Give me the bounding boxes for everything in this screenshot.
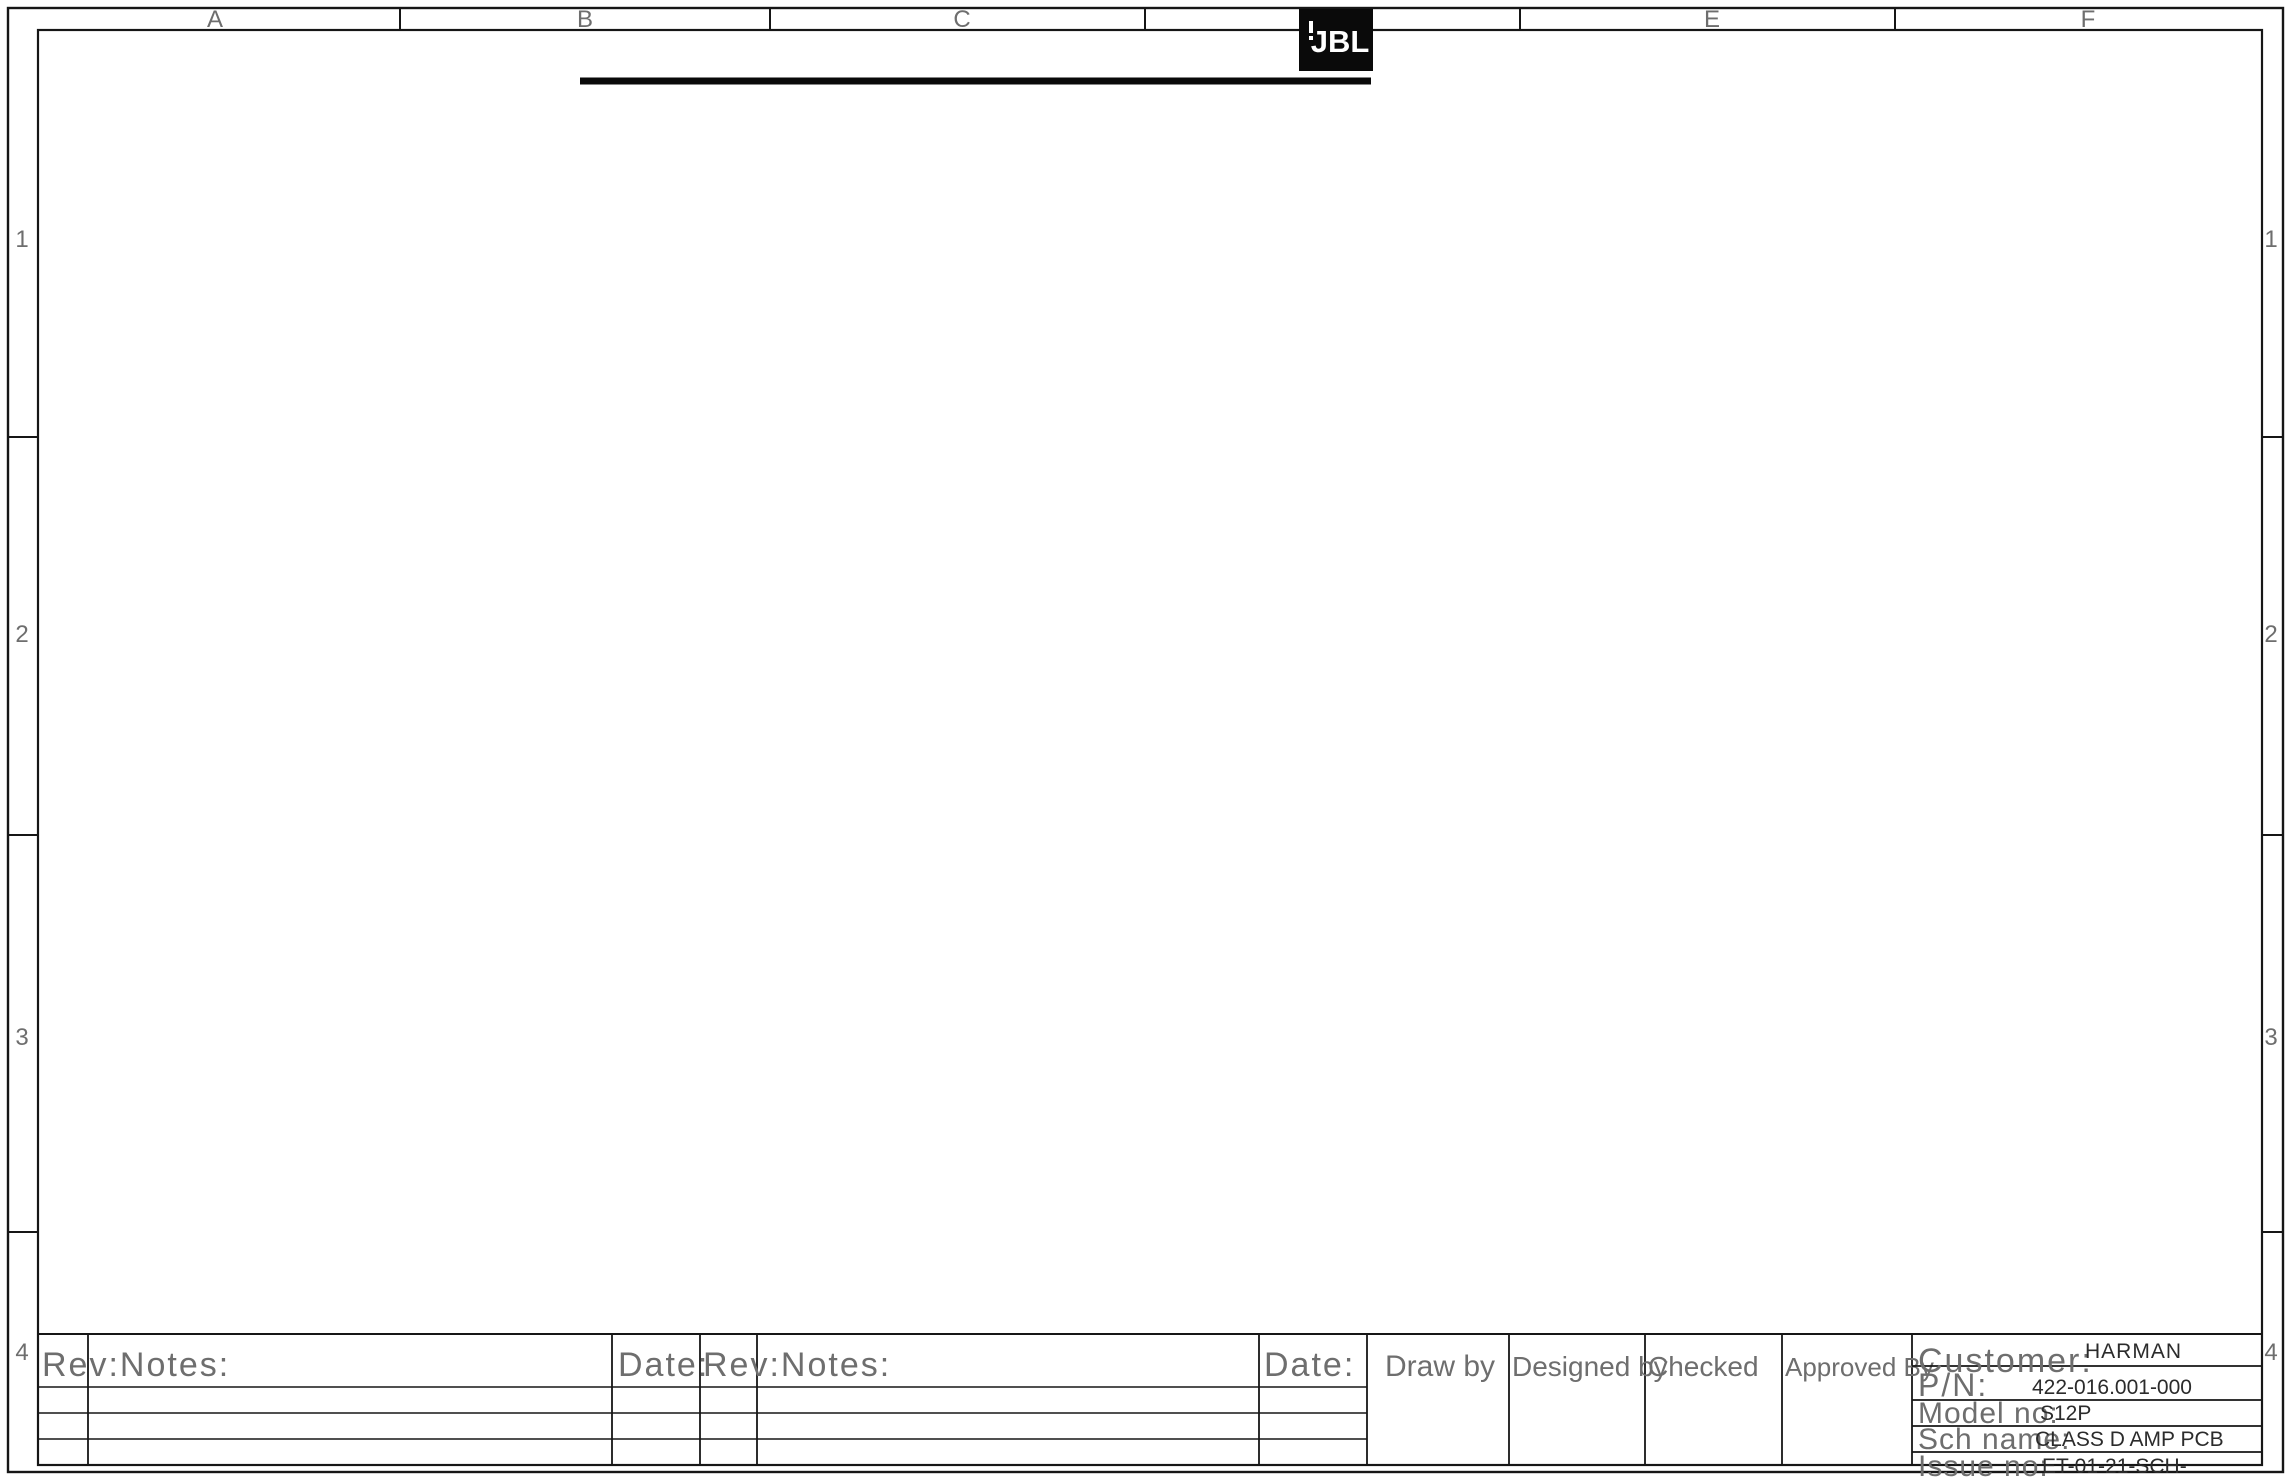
svg-text:Rev:Notes:: Rev:Notes: bbox=[703, 1346, 891, 1384]
svg-text:Draw by: Draw by bbox=[1385, 1350, 1495, 1383]
border tick bbox=[1894, 8, 1896, 30]
border tick bbox=[399, 8, 401, 30]
svg-text:F: F bbox=[2081, 6, 2096, 33]
rev table row line bbox=[38, 1438, 1367, 1440]
border tick bbox=[769, 8, 771, 30]
svg-text:Approved By: Approved By bbox=[1785, 1352, 1934, 1382]
title block row line bbox=[1912, 1365, 2262, 1367]
svg-text:C: C bbox=[953, 6, 970, 33]
svg-text:A: A bbox=[207, 6, 223, 33]
rev table column line bbox=[1781, 1334, 1783, 1465]
svg-text:4: 4 bbox=[15, 1339, 28, 1366]
svg-text:3: 3 bbox=[15, 1024, 28, 1051]
border tick bbox=[8, 436, 2283, 438]
JBL logo bbox=[1299, 9, 1373, 71]
svg-text:1: 1 bbox=[2264, 226, 2277, 253]
border tick bbox=[1519, 8, 1521, 30]
svg-text:Date:: Date: bbox=[618, 1346, 709, 1384]
rev table row line bbox=[38, 1464, 1367, 1466]
border tick bbox=[8, 834, 2283, 836]
svg-text:422-016.001-000: 422-016.001-000 bbox=[2032, 1376, 2192, 1399]
rev table column line bbox=[87, 1334, 89, 1465]
border tick bbox=[1144, 8, 1146, 30]
rev table column line bbox=[699, 1334, 701, 1465]
rev table col ext bbox=[1366, 1464, 1368, 1466]
border tick bbox=[8, 1231, 2283, 1233]
svg-text:4: 4 bbox=[2264, 1339, 2277, 1366]
svg-text:2: 2 bbox=[15, 621, 28, 648]
rev table column line bbox=[1258, 1334, 1260, 1465]
rev table column line bbox=[1644, 1334, 1646, 1465]
svg-text:3: 3 bbox=[2264, 1024, 2277, 1051]
svg-text:Designed by: Designed by bbox=[1512, 1351, 1668, 1382]
svg-text:HARMAN: HARMAN bbox=[2085, 1340, 2182, 1363]
rev table column line bbox=[1508, 1334, 1510, 1465]
rev table row line bbox=[38, 1412, 1367, 1414]
rev table column line bbox=[1911, 1334, 1913, 1465]
title underline bar bbox=[580, 78, 1371, 85]
svg-text:JBL: JBL bbox=[1311, 24, 1370, 59]
title block row line bbox=[1912, 1451, 2262, 1453]
title block row line bbox=[1912, 1399, 2262, 1401]
svg-text:E: E bbox=[1704, 6, 1720, 33]
rev table column line bbox=[611, 1334, 613, 1465]
svg-text:Rev:Notes:: Rev:Notes: bbox=[42, 1346, 230, 1384]
svg-text:Date:: Date: bbox=[1264, 1346, 1355, 1384]
svg-text:S12P: S12P bbox=[2040, 1402, 2091, 1425]
rev table column line bbox=[1366, 1334, 1368, 1465]
rev table top line bbox=[38, 1333, 2262, 1335]
svg-text:Issue no:: Issue no: bbox=[1918, 1450, 2049, 1480]
rev table column line bbox=[756, 1334, 758, 1465]
svg-text:2: 2 bbox=[2264, 621, 2277, 648]
rev table row line bbox=[38, 1386, 1367, 1388]
svg-text:1: 1 bbox=[15, 226, 28, 253]
svg-text:CLASS D AMP PCB: CLASS D AMP PCB bbox=[2035, 1428, 2224, 1451]
svg-text:Checked: Checked bbox=[1648, 1351, 1759, 1382]
title block row line bbox=[1912, 1425, 2262, 1427]
svg-text:B: B bbox=[577, 6, 593, 33]
svg-text:ET-01-21-SCH-: ET-01-21-SCH- bbox=[2042, 1455, 2187, 1478]
